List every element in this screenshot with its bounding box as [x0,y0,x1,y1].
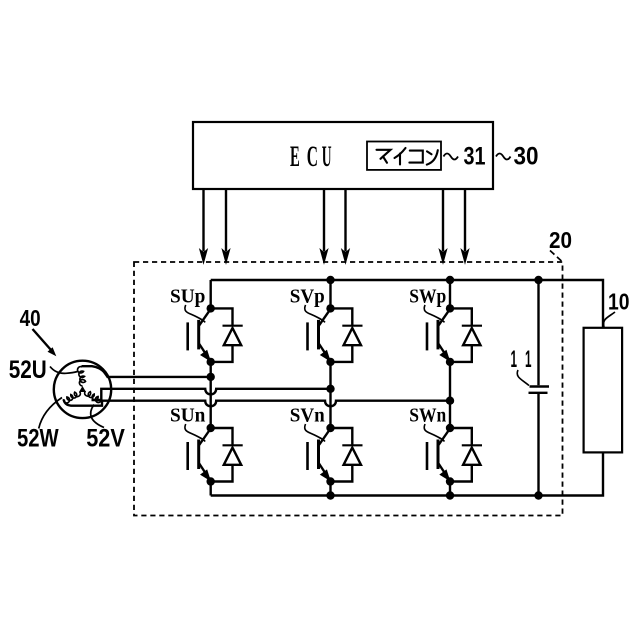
motor winding W coil [64,392,81,403]
motor winding V coil [85,391,102,402]
leader for 10 [604,312,615,327]
svg-text:52W: 52W [17,424,59,452]
inverter enclosure box 20 (dashed) [134,262,563,516]
transistor SUn [188,429,211,482]
svg-text:52V: 52V [86,424,125,452]
wire: phase V line [92,389,331,400]
node junction 5 [446,491,454,499]
svg-text:SUp: SUp [170,285,205,307]
svg-text:52U: 52U [9,356,47,384]
wire: phase W line [64,400,450,407]
diode DSVp [331,308,363,362]
capacitor C11 wire top [537,280,539,385]
node junction 9 [446,397,454,405]
battery box 10 [584,328,623,453]
node junction 18 [446,304,454,312]
leader SVp [305,305,325,323]
svg-text:30: 30 [514,142,539,170]
diode DSWn [450,428,482,482]
leader SWp [424,305,444,323]
gate signal arrow 6 [461,190,468,264]
svg-text:E: E [290,141,300,173]
gate signal arrow 2 [222,190,229,264]
leader for 11 [517,370,529,386]
node junction 21 [446,477,454,485]
svg-text:40: 40 [20,305,41,331]
svg-text:SVn: SVn [290,405,326,427]
gate signal arrow 4 [342,190,349,264]
diode DSUp [211,308,243,362]
node junction 4 [326,491,334,499]
transistor SUp [188,309,211,362]
node junction 14 [326,304,334,312]
diode DSVn [331,428,363,482]
node junction 10 [207,304,215,312]
capacitor C11 plates [529,387,550,393]
leader for 52U [50,367,78,374]
wire: phase V leg [329,280,331,496]
svg-text:SVp: SVp [290,285,325,307]
node junction 2 [446,276,454,284]
capacitor C11 wire bottom [537,394,539,496]
microcontroller box 31 [367,142,441,170]
leader SUp [185,305,205,323]
motor winding U coil [78,367,86,386]
svg-text:1: 1 [525,346,532,373]
transistor SWn [427,429,450,482]
transistor SVp [308,309,331,362]
svg-text:C: C [307,141,318,173]
transistor SVn [308,429,331,482]
svg-text:SUn: SUn [170,405,206,427]
svg-text:1: 1 [511,346,518,373]
node junction 16 [326,424,334,432]
ECU box 30 [193,122,493,189]
node junction 15 [326,358,334,366]
node junction 20 [446,424,454,432]
node junction 17 [326,477,334,485]
gate signal arrow 5 [439,190,446,264]
gate signal arrow 3 [320,190,327,264]
tilde to 30 [496,154,511,160]
wire: phase U leg [209,280,211,496]
wire: negative DC bottom rail [211,452,603,495]
leader for 52W [39,398,62,429]
svg-text:SWp: SWp [409,285,446,307]
node junction 19 [446,358,454,366]
node junction 12 [207,424,215,432]
leader SWn [424,424,444,442]
gate signal arrow 1 [200,190,207,264]
leader for 20 (dashed) [550,251,563,263]
leader SVn [305,424,325,442]
node junction 6 [534,491,542,499]
arrow leader for 40 [33,329,57,356]
svg-text:SWn: SWn [409,405,447,427]
motor winding center node [79,386,86,392]
leader SUn [185,424,205,442]
diode DSUn [211,428,243,482]
wire: phase U line [82,366,211,377]
label maikon (katakana) [377,148,438,165]
wire: positive DC top rail [211,280,603,328]
node junction 1 [326,276,334,284]
node junction 8 [326,385,334,393]
wire: phase W leg [449,280,451,496]
node junction 3 [534,276,542,284]
node junction 13 [207,477,215,485]
motor 40 circle [54,361,111,418]
svg-text:U: U [322,141,332,173]
tilde to 31 [444,154,459,160]
transistor SWp [427,309,450,362]
svg-text:20: 20 [549,227,572,253]
svg-text:10: 10 [608,289,630,315]
node junction 11 [207,358,215,366]
svg-text:31: 31 [464,142,486,170]
diode DSWp [450,308,482,362]
leader for 52V [91,405,104,428]
node junction 7 [207,373,215,381]
